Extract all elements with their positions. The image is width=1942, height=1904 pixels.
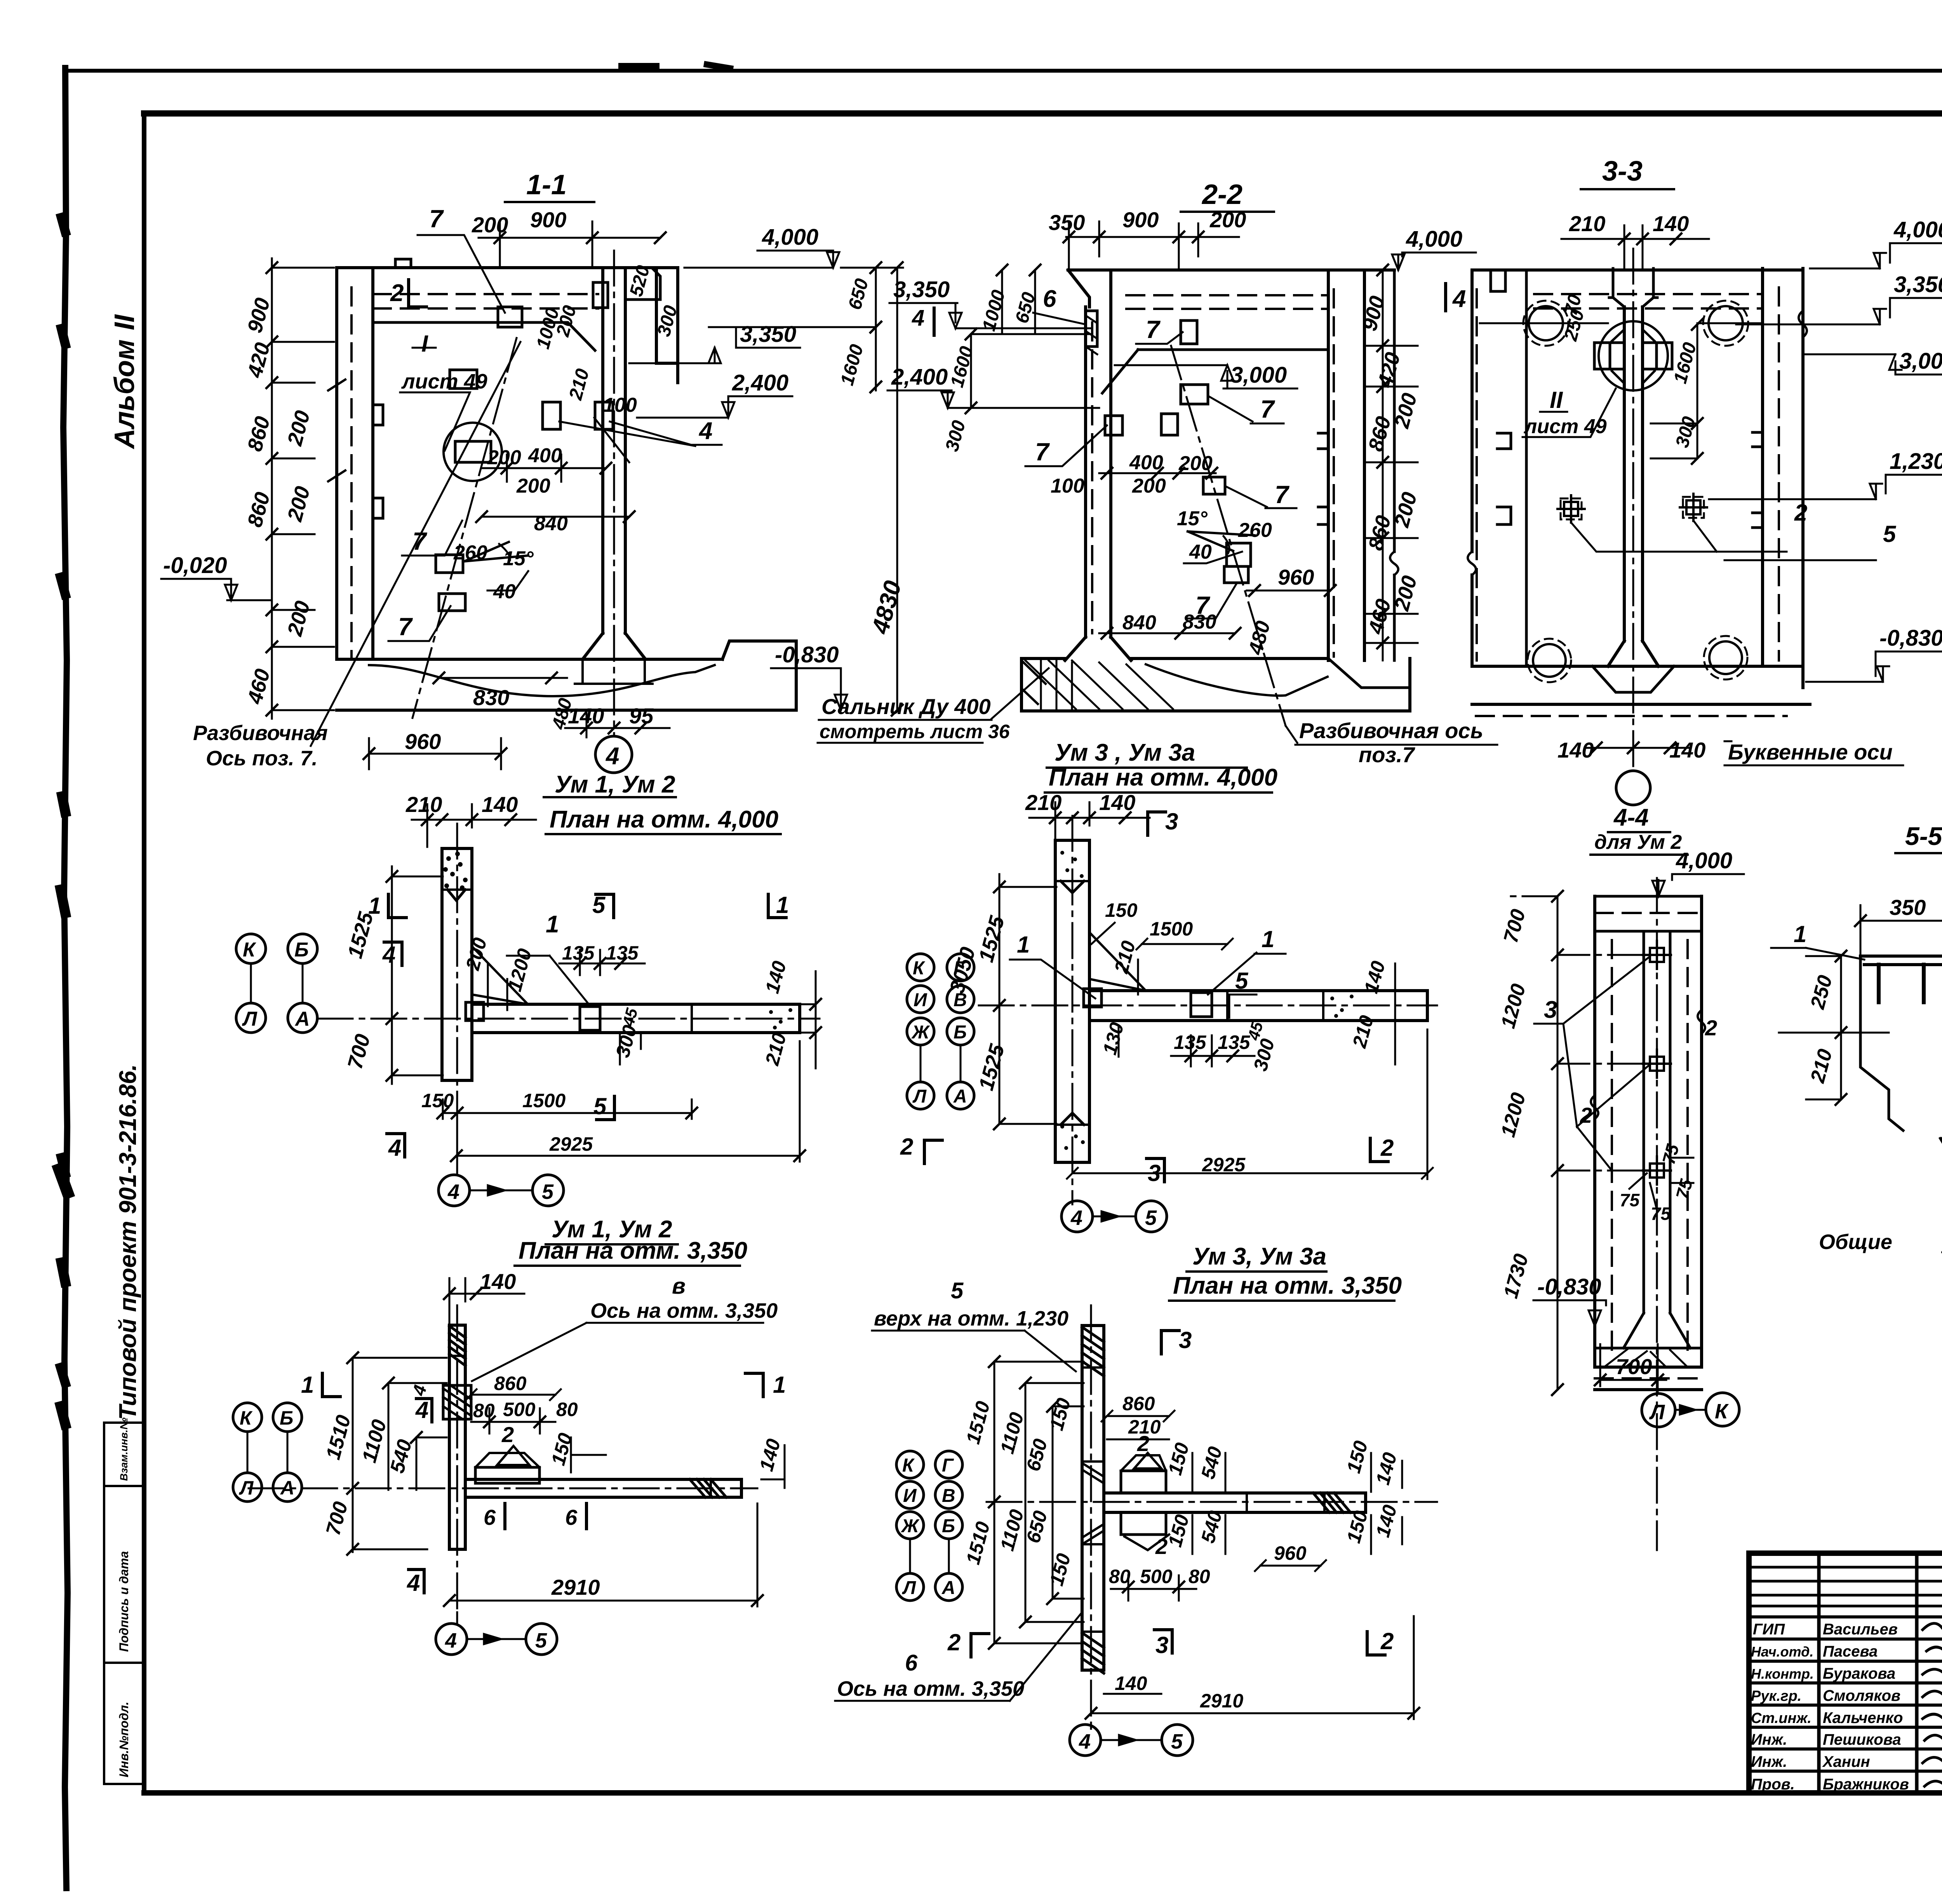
1600 / 300 dims: [1697, 324, 1698, 458]
bottom axis circles 4 5: [439, 1175, 470, 1206]
slanted axis: [1171, 346, 1286, 726]
svg-text:4: 4: [382, 942, 395, 968]
left dim chains: [994, 1362, 995, 1643]
Bukvennye osi: [1728, 740, 1893, 764]
svg-text:5: 5: [535, 1629, 547, 1652]
svg-text:К: К: [243, 939, 256, 961]
bottom 140 95 + axis circle 4: [565, 727, 670, 729]
svg-text:К: К: [1715, 1400, 1729, 1423]
name table verticals: [1819, 1553, 1942, 1793]
svg-text:1: 1: [368, 893, 381, 919]
svg-text:7: 7: [1035, 438, 1050, 466]
2 labels: [1580, 1016, 1717, 1127]
svg-text:2925: 2925: [549, 1133, 593, 1155]
v / os na otm 3350 leader: [590, 1273, 778, 1322]
svg-text:400: 400: [528, 444, 562, 467]
svg-text:Смоляков: Смоляков: [1823, 1687, 1900, 1704]
svg-text:140: 140: [1669, 738, 1705, 762]
svg-text:4: 4: [1079, 1730, 1091, 1753]
svg-text:Б: Б: [280, 1407, 293, 1429]
svg-text:7: 7: [1260, 395, 1276, 423]
left dim chain: [391, 866, 393, 1084]
top dimension 200 900: [479, 237, 660, 239]
deck underside + haunch: [1102, 350, 1328, 393]
svg-text:К: К: [902, 1455, 915, 1476]
svg-text:2: 2: [1705, 1016, 1717, 1040]
right wall: [1763, 268, 1803, 688]
6 / os na otm 3,350: [837, 1650, 1024, 1700]
svg-text:500: 500: [503, 1399, 536, 1420]
section marks: [947, 1628, 1394, 1658]
svg-text:Типовой проект 901-3-216.86.: Типовой проект 901-3-216.86.: [115, 1064, 141, 1420]
svg-text:Л: Л: [239, 1477, 254, 1499]
Razbivochnaya os text right: [1299, 718, 1483, 767]
210 140 dims: [1029, 817, 1150, 819]
svg-text:350: 350: [1890, 895, 1926, 920]
svg-text:4: 4: [605, 743, 619, 770]
elevations right: [1879, 217, 1942, 651]
svg-text:840: 840: [1122, 611, 1156, 634]
svg-text:5: 5: [593, 1093, 607, 1119]
svg-text:2,400: 2,400: [891, 364, 948, 390]
bottom slab: [1472, 666, 1810, 704]
blocks above/below axis: [1121, 1471, 1166, 1493]
svg-text:7: 7: [412, 527, 428, 555]
svg-text:80: 80: [556, 1399, 578, 1420]
svg-text:4: 4: [445, 1629, 457, 1652]
svg-text:1: 1: [1794, 921, 1806, 947]
wall: [449, 1325, 465, 1549]
svg-text:II: II: [1550, 387, 1563, 413]
pedestal under column: [575, 659, 653, 684]
leaders to 2 and 5: [1571, 521, 1787, 552]
svg-text:3,350: 3,350: [740, 322, 796, 347]
210 140 dims: [412, 819, 536, 821]
svg-text:140: 140: [1557, 738, 1594, 762]
svg-text:140: 140: [482, 792, 518, 817]
svg-text:200: 200: [516, 475, 550, 497]
svg-text:6: 6: [484, 1505, 496, 1529]
svg-text:Л: Л: [242, 1008, 258, 1030]
leader 1: [546, 911, 559, 938]
bottom axis circles 4 5: [1061, 1201, 1093, 1232]
letter axis circles (8): [907, 954, 974, 1109]
svg-text:К: К: [240, 1407, 253, 1429]
svg-text:3,350: 3,350: [1894, 272, 1942, 297]
svg-text:Ось на отм. 3,350: Ось на отм. 3,350: [837, 1677, 1024, 1700]
svg-text:135: 135: [562, 942, 595, 964]
svg-text:-0,830: -0,830: [775, 642, 839, 667]
svg-text:А: А: [953, 1086, 967, 1107]
column head: [593, 282, 608, 308]
deck top: [1068, 268, 1394, 272]
svg-text:А: А: [294, 1008, 310, 1030]
svg-text:А: А: [941, 1578, 955, 1598]
140 dim top: [449, 1293, 524, 1295]
top circles: [1529, 306, 1563, 340]
svg-text:40: 40: [493, 580, 516, 603]
2910 dim: [1091, 1712, 1414, 1714]
4,000 elevation: [1676, 848, 1732, 873]
wall notches: [373, 405, 383, 518]
svg-text:200: 200: [472, 213, 508, 237]
960 dim: [1247, 590, 1330, 592]
svg-text:200: 200: [1132, 475, 1166, 497]
6 section marks: [484, 1505, 578, 1529]
embedded plate: [580, 1007, 600, 1030]
svg-text:3: 3: [1544, 996, 1557, 1023]
detail circle I list 49: [444, 423, 502, 481]
svg-text:5: 5: [1145, 1206, 1157, 1230]
wall mid hatched joints: [1082, 1462, 1104, 1544]
gland box 6: [1086, 311, 1097, 347]
svg-text:Буракова: Буракова: [1823, 1665, 1895, 1682]
svg-text:Ум 1, Ум 2: Ум 1, Ум 2: [555, 771, 675, 798]
svg-text:Г: Г: [954, 958, 966, 979]
axis + ref circle 4-4: [1632, 249, 1634, 771]
svg-text:3,000: 3,000: [1230, 362, 1287, 388]
section title 3-3: [1602, 156, 1643, 187]
hidden deck edges: [373, 294, 598, 308]
svg-text:1: 1: [1262, 926, 1274, 952]
svg-text:верх на отм. 1,230: верх на отм. 1,230: [874, 1307, 1068, 1330]
svg-text:4-4: 4-4: [1613, 804, 1649, 831]
svg-text:140: 140: [568, 704, 604, 728]
right small dims: [532, 263, 681, 402]
-0,020 mark: [163, 553, 227, 578]
svg-text:1500: 1500: [522, 1090, 566, 1111]
svg-text:Л: Л: [912, 1086, 927, 1107]
svg-text:210: 210: [1569, 211, 1605, 236]
svg-text:4: 4: [1452, 286, 1466, 312]
svg-text:2: 2: [390, 280, 404, 307]
svg-text:Пров.: Пров.: [1751, 1776, 1795, 1793]
svg-text:Взам.инв.№: Взам.инв.№: [118, 1418, 130, 1481]
top dims 350 900 200: [1066, 236, 1239, 238]
big circle with cross: [1599, 321, 1668, 390]
svg-text:4,000: 4,000: [1676, 848, 1732, 873]
svg-text:5: 5: [592, 892, 606, 918]
svg-text:100: 100: [603, 394, 637, 416]
svg-text:4: 4: [1070, 1206, 1082, 1230]
svg-text:2,400: 2,400: [732, 370, 788, 395]
axes: [1090, 1305, 1092, 1729]
svg-text:960: 960: [405, 729, 441, 754]
column: [1624, 307, 1643, 641]
svg-text:Л: Л: [1649, 1401, 1665, 1424]
svg-text:860: 860: [1122, 1393, 1155, 1414]
svg-text:Б: Б: [294, 939, 309, 961]
concrete speckle on top segment: [443, 852, 468, 890]
plan dims: [1099, 899, 1390, 1176]
elevation 3,350: [740, 322, 796, 347]
svg-text:Пешикова: Пешикова: [1823, 1731, 1901, 1748]
wall break marks: [328, 380, 345, 481]
bracket profile: [1860, 956, 1942, 965]
axis circles 4 5: [436, 1624, 467, 1655]
letter axis circles: [236, 934, 317, 1033]
svg-text:Инж.: Инж.: [1751, 1753, 1787, 1770]
svg-text:I: I: [421, 331, 428, 357]
inner frame: [144, 110, 1942, 117]
leader 7 top: [429, 205, 444, 233]
left dims 250 210: [1840, 956, 1842, 1099]
svg-text:ГИП: ГИП: [1753, 1621, 1785, 1638]
75 dims: [1620, 1141, 1697, 1224]
axis circles 4 5: [1070, 1725, 1101, 1756]
svg-text:150: 150: [1105, 899, 1138, 921]
svg-text:4: 4: [388, 1135, 401, 1161]
wall break squiggle: [1799, 311, 1807, 337]
svg-text:II: II: [109, 314, 140, 330]
svg-text:Инж.: Инж.: [1751, 1731, 1787, 1748]
section marks 3 bottom / 2 marks: [900, 1134, 1394, 1186]
svg-text:Нач.отд.: Нач.отд.: [1751, 1644, 1813, 1660]
svg-text:Кальченко: Кальченко: [1823, 1709, 1903, 1726]
svg-text:2: 2: [1794, 500, 1807, 526]
razbivochnaya os text: [193, 721, 328, 770]
svg-text:5: 5: [1235, 968, 1249, 994]
svg-text:75: 75: [1620, 1190, 1640, 1210]
svg-text:80: 80: [1189, 1566, 1210, 1587]
svg-text:5-5: 5-5: [1905, 822, 1942, 850]
svg-text:4: 4: [447, 1180, 459, 1204]
svg-text:1: 1: [773, 1372, 786, 1398]
embedded plates: [1181, 321, 1197, 344]
svg-text:Ось на отм. 3,350: Ось на отм. 3,350: [590, 1299, 778, 1322]
svg-text:15°: 15°: [1177, 507, 1208, 530]
bottom slab: [1021, 658, 1410, 711]
svg-text:7: 7: [398, 613, 413, 641]
svg-text:2: 2: [1380, 1628, 1394, 1654]
svg-text:260: 260: [1238, 519, 1272, 542]
2910 dim: [449, 1600, 757, 1602]
svg-text:1500: 1500: [1150, 918, 1193, 940]
big right dim 4830: [896, 268, 898, 710]
outer boundary line with break: [1393, 270, 1396, 660]
svg-text:200: 200: [1178, 452, 1213, 475]
top deck slab: [337, 266, 678, 269]
II list 49: [1523, 387, 1607, 438]
svg-text:960: 960: [1274, 1542, 1307, 1564]
svg-text:210: 210: [1025, 790, 1061, 815]
4,000 elevation top right: [1406, 226, 1462, 252]
plan title: [550, 771, 778, 833]
svg-text:830: 830: [1183, 611, 1216, 633]
svg-text:900: 900: [530, 207, 566, 232]
svg-text:4: 4: [912, 305, 924, 331]
left chamfer + column: [1068, 270, 1089, 307]
column head: [1609, 268, 1657, 307]
embedded plates pos.7: [498, 307, 522, 327]
column foot: [583, 633, 646, 659]
svg-text:1: 1: [1017, 932, 1030, 958]
wall: [1082, 1326, 1104, 1670]
svg-text:Васильев: Васильев: [1823, 1621, 1898, 1638]
svg-text:Б: Б: [942, 1516, 955, 1536]
left dims: [891, 277, 1039, 454]
-0,830 mark right: [775, 642, 839, 667]
svg-text:400: 400: [1129, 451, 1163, 474]
svg-text:1: 1: [776, 892, 789, 918]
titles of plan D (below B): [1173, 1243, 1402, 1299]
5 / verh na otm 1,230 leader: [874, 1278, 1068, 1330]
titles above: [519, 1216, 747, 1264]
leaders 1 1 5: [1017, 926, 1274, 994]
svg-text:Ж: Ж: [900, 1516, 920, 1536]
svg-text:Альбом: Альбом: [109, 340, 140, 449]
triangle chute: [472, 946, 528, 1004]
right stub wall: [656, 268, 678, 383]
leader 7 mid: [412, 527, 428, 555]
leader 1: [1794, 921, 1806, 947]
section title 2-2: [1201, 179, 1242, 210]
svg-text:Разбивочная: Разбивочная: [193, 721, 328, 745]
deck top: [1472, 268, 1803, 272]
svg-text:350: 350: [1049, 210, 1085, 235]
title block: [1749, 1429, 1942, 1811]
left margin vertical texts: [109, 300, 141, 1420]
840/830 dims: [1099, 632, 1235, 634]
svg-text:5: 5: [1171, 1730, 1183, 1753]
svg-text:И: И: [914, 990, 927, 1010]
svg-text:1: 1: [546, 911, 559, 938]
svg-text:1-1: 1-1: [526, 169, 567, 200]
slanted setting-out axis: [412, 338, 517, 718]
thin top rows: [1749, 1567, 1942, 1606]
left wall: [337, 268, 373, 659]
left wall top step: [1491, 270, 1505, 291]
svg-text:140: 140: [480, 1269, 516, 1294]
svg-text:3: 3: [1148, 1160, 1161, 1186]
wall (plan): [442, 848, 472, 1080]
bench detail: [475, 1467, 539, 1483]
svg-text:Общие: Общие: [1819, 1230, 1892, 1254]
svg-text:Ст.инж.: Ст.инж.: [1751, 1710, 1811, 1726]
svg-text:4: 4: [407, 1570, 420, 1596]
plan dims: [421, 935, 790, 1155]
svg-text:Сальник Ду 400: Сальник Ду 400: [821, 694, 991, 719]
svg-text:140: 140: [1099, 790, 1135, 815]
letter circles (8): [896, 1451, 962, 1601]
svg-text:3: 3: [1179, 1327, 1192, 1353]
elevation 2,400: [732, 370, 788, 395]
left torn scan edge: [63, 68, 68, 1888]
svg-text:Инв.№подл.: Инв.№подл.: [117, 1702, 131, 1777]
svg-text:И: И: [903, 1486, 917, 1506]
main block outer: [1749, 1553, 1942, 1793]
section marks 1,1,4,4: [301, 1372, 786, 1596]
svg-text:3: 3: [1165, 808, 1178, 834]
svg-text:3,350: 3,350: [893, 277, 950, 302]
svg-text:К: К: [913, 958, 926, 979]
svg-text:Подпись и дата: Подпись и дата: [117, 1551, 131, 1652]
svg-text:200: 200: [487, 446, 521, 469]
svg-text:А: А: [280, 1477, 294, 1499]
svg-text:500: 500: [1140, 1566, 1173, 1587]
svg-text:2910: 2910: [551, 1575, 600, 1599]
svg-text:-0,830: -0,830: [1879, 625, 1942, 651]
svg-text:1,230: 1,230: [1890, 449, 1942, 474]
svg-text:2-2: 2-2: [1201, 179, 1242, 210]
anchors: [1557, 494, 1707, 523]
svg-text:40: 40: [1189, 541, 1212, 563]
body: [1595, 896, 1702, 1367]
svg-text:Ж: Ж: [911, 1022, 930, 1043]
svg-text:-0,020: -0,020: [163, 553, 227, 578]
140 140 dim: [1585, 747, 1690, 749]
svg-text:900: 900: [1122, 207, 1159, 232]
svg-text:100: 100: [1051, 475, 1084, 497]
140 under wall: [1115, 1672, 1147, 1694]
embedded plate: [1191, 993, 1212, 1017]
section mark 3 top: [1179, 1327, 1192, 1353]
top small step on deck left: [395, 259, 411, 268]
section marks: [368, 892, 789, 1161]
svg-text:140: 140: [1115, 1672, 1147, 1694]
svg-text:Ханин: Ханин: [1822, 1753, 1870, 1770]
svg-text:поз.7: поз.7: [1359, 742, 1416, 767]
svg-text:Разбивочная ось: Разбивочная ось: [1299, 718, 1483, 743]
15deg wedge: [464, 542, 528, 561]
svg-text:-0,830: -0,830: [1537, 1274, 1601, 1300]
svg-text:2: 2: [1580, 1103, 1592, 1127]
svg-text:6: 6: [565, 1505, 578, 1529]
svg-text:6: 6: [1043, 286, 1056, 312]
svg-text:Г: Г: [942, 1455, 954, 1476]
svg-text:1: 1: [301, 1372, 314, 1398]
sump under column: [1592, 666, 1674, 692]
section mark 4 right: [1452, 286, 1466, 312]
Salnik text: [820, 694, 1010, 742]
svg-text:6: 6: [905, 1650, 918, 1676]
350 dim: [1860, 920, 1942, 922]
wall: [1055, 840, 1089, 1162]
svg-text:4: 4: [415, 1397, 428, 1423]
svg-text:Рук.гр.: Рук.гр.: [1751, 1688, 1801, 1704]
svg-text:Л: Л: [902, 1578, 916, 1598]
svg-text:Б: Б: [954, 1022, 967, 1043]
svg-text:140: 140: [1653, 211, 1689, 236]
svg-text:830: 830: [473, 685, 509, 710]
elevation 4,000: [762, 225, 818, 250]
svg-text:200: 200: [1209, 207, 1246, 232]
svg-text:7: 7: [1275, 481, 1290, 509]
axes: [456, 824, 458, 1127]
leader 7 low: [398, 613, 413, 641]
section mark 3 top: [1165, 808, 1178, 834]
svg-text:В: В: [942, 1486, 955, 1506]
svg-text:Н.контр.: Н.контр.: [1751, 1666, 1814, 1682]
svg-text:7: 7: [1146, 315, 1161, 343]
svg-text:Пасева: Пасева: [1823, 1643, 1878, 1660]
svg-text:4,000: 4,000: [762, 225, 818, 250]
leaders 7: [1035, 315, 1290, 619]
svg-text:для Ум 2: для Ум 2: [1594, 831, 1682, 854]
dims: [408, 1373, 785, 1474]
svg-text:95: 95: [629, 704, 654, 728]
svg-text:700: 700: [1616, 1354, 1652, 1379]
axes: [1072, 816, 1074, 1204]
speckle right end: [769, 1008, 792, 1030]
left dim chain: [999, 874, 1001, 1123]
svg-text:2910: 2910: [1200, 1690, 1243, 1712]
axes: [456, 1305, 458, 1612]
svg-text:Ось поз. 7.: Ось поз. 7.: [206, 747, 318, 770]
name rows: [1749, 1617, 1942, 1771]
slab strip: [1089, 991, 1427, 1021]
top dims 210 140: [1561, 238, 1709, 240]
